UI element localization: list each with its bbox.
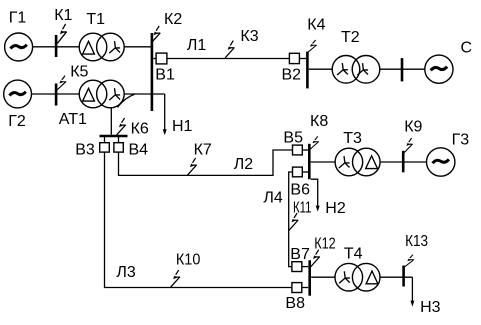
fault K4 xyxy=(307,40,316,53)
svg-text:В2: В2 xyxy=(282,67,302,84)
bar of V3 V4 xyxy=(100,135,128,137)
fault K1 xyxy=(56,24,67,57)
fault K3 xyxy=(225,41,234,58)
fault K8 xyxy=(310,136,319,149)
fault K7 xyxy=(187,158,196,175)
busbar bus2 xyxy=(306,52,309,89)
busbar bus1 xyxy=(151,33,154,111)
breaker V1 xyxy=(153,53,167,64)
fault K2 xyxy=(151,26,160,43)
svg-text:Т3: Т3 xyxy=(343,130,362,147)
svg-text:К5: К5 xyxy=(70,63,88,80)
transformer T4 xyxy=(335,263,380,291)
breaker V6 xyxy=(293,167,309,177)
busbar bus3 xyxy=(308,144,311,179)
line L3 xyxy=(105,152,292,287)
wire AT1 to bus1 and H1 tap xyxy=(124,93,165,95)
wire G1 to T1 xyxy=(33,46,80,48)
fault K11 xyxy=(289,213,298,230)
fault K12 xyxy=(311,250,320,267)
system C xyxy=(425,55,453,83)
breaker V3 xyxy=(100,136,110,152)
svg-text:Л3: Л3 xyxy=(116,264,135,281)
svg-text:Л2: Л2 xyxy=(234,156,254,173)
generator G2 xyxy=(4,80,32,108)
fault K6 xyxy=(116,118,125,135)
breaker V2 xyxy=(289,53,306,63)
svg-text:К3: К3 xyxy=(240,28,258,45)
svg-text:К2: К2 xyxy=(164,11,182,28)
node terminal bar near C xyxy=(401,58,404,81)
svg-text:Г2: Г2 xyxy=(8,113,26,130)
svg-text:К8: К8 xyxy=(310,113,328,130)
generator G1 xyxy=(5,33,33,61)
svg-text:К6: К6 xyxy=(131,121,149,138)
line L4 xyxy=(289,172,293,267)
svg-text:К10: К10 xyxy=(176,252,201,269)
fault K5 xyxy=(56,76,66,106)
load H3 xyxy=(410,277,414,306)
svg-text:К13: К13 xyxy=(405,233,428,250)
svg-text:АТ1: АТ1 xyxy=(59,111,87,128)
breaker V8 xyxy=(292,283,308,293)
svg-text:В7: В7 xyxy=(290,246,310,263)
svg-text:В1: В1 xyxy=(155,67,175,84)
svg-text:Т2: Т2 xyxy=(341,29,360,46)
svg-text:Г1: Г1 xyxy=(9,10,27,27)
wire T4 to K13 and H3 xyxy=(380,276,412,278)
svg-text:В4: В4 xyxy=(129,142,149,159)
svg-text:К9: К9 xyxy=(404,118,422,135)
svg-text:Н1: Н1 xyxy=(172,118,193,135)
wire bus4 to T4 xyxy=(311,276,335,278)
svg-text:Т1: Т1 xyxy=(86,11,105,28)
svg-text:Н3: Н3 xyxy=(420,299,441,316)
wire G2 to AT1 xyxy=(32,93,80,95)
svg-text:Т4: Т4 xyxy=(344,246,363,263)
transformer T1 xyxy=(79,33,124,61)
breaker V7 xyxy=(292,262,308,272)
wire T3 to G3 xyxy=(380,161,427,163)
svg-text:В6: В6 xyxy=(290,182,310,199)
wire T1 to bus1 xyxy=(124,46,151,48)
svg-text:Л1: Л1 xyxy=(187,37,207,54)
generator G3 xyxy=(427,148,455,176)
fault K9 xyxy=(403,138,412,172)
svg-text:К4: К4 xyxy=(307,16,325,33)
breaker V5 xyxy=(293,145,309,155)
svg-text:С: С xyxy=(461,40,473,57)
transformer T2 xyxy=(332,56,380,84)
line L2 xyxy=(119,150,293,175)
svg-text:В5: В5 xyxy=(283,130,303,147)
svg-text:К12: К12 xyxy=(314,235,336,252)
wire bus2 to T2 xyxy=(309,68,333,70)
fault K10 xyxy=(171,270,180,287)
wire T2 to C xyxy=(380,68,425,70)
svg-text:В3: В3 xyxy=(75,142,95,159)
svg-text:Н2: Н2 xyxy=(325,200,346,217)
busbar bus4 xyxy=(308,260,311,295)
breaker V4 xyxy=(114,136,123,152)
svg-text:К11: К11 xyxy=(293,199,312,216)
svg-text:Л4: Л4 xyxy=(263,190,283,207)
autotransformer AT1 xyxy=(79,80,134,108)
fault K13 xyxy=(404,255,414,287)
svg-text:К7: К7 xyxy=(194,141,212,158)
load H2 xyxy=(311,179,320,211)
wire bus3 to T3 xyxy=(311,161,335,163)
AT1 LV lead wire xyxy=(110,108,112,135)
load H1 xyxy=(163,94,167,135)
svg-text:К1: К1 xyxy=(54,7,72,24)
svg-text:Г3: Г3 xyxy=(452,132,470,149)
svg-text:В8: В8 xyxy=(285,295,305,312)
line L1 xyxy=(167,58,290,60)
transformer T3 xyxy=(335,148,380,176)
